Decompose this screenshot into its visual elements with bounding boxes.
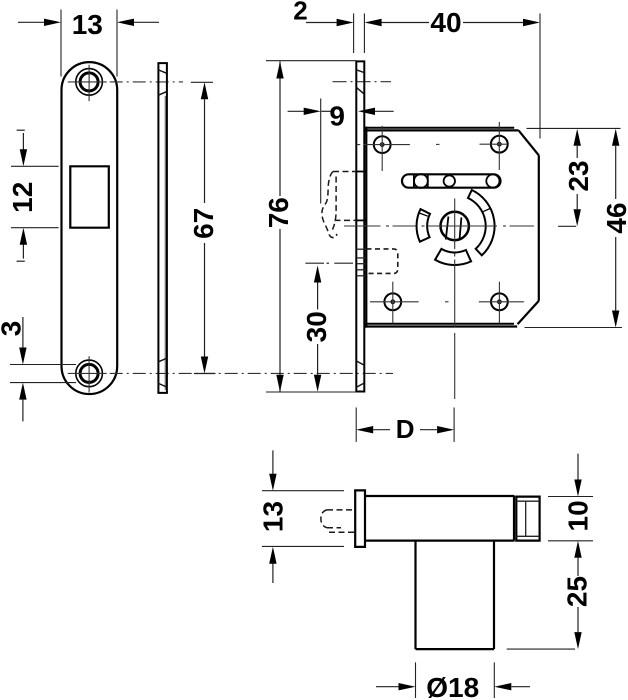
bottom-right hole crosshair xyxy=(479,282,524,324)
core vertical centerline xyxy=(454,199,456,400)
tumbler circle 2 xyxy=(444,175,455,186)
svg-text:9: 9 xyxy=(329,101,345,132)
lock faceplate strip xyxy=(356,61,364,391)
dim 13b bottom arrow xyxy=(269,547,276,583)
lock faceplate strip hatching xyxy=(356,70,364,387)
dim 13b extension lines xyxy=(262,491,344,547)
bottom view faceplate bar xyxy=(355,490,365,547)
bottom view cylinder xyxy=(416,541,495,650)
dim 18 label xyxy=(426,672,479,700)
dim 9 reference line xyxy=(320,99,322,204)
dim 18 extension lines xyxy=(416,662,495,698)
svg-text:67: 67 xyxy=(188,208,219,239)
bottom holes centerline dot xyxy=(445,301,449,303)
dim right bottom extension line xyxy=(525,327,623,329)
lock case outline xyxy=(365,127,539,328)
dim 12 bottom arrow xyxy=(17,228,28,262)
cam arc right joint line xyxy=(483,208,490,211)
dim 3 extension lines xyxy=(10,365,76,383)
dim 12 extension lines xyxy=(11,166,59,227)
dim 2 extension lines xyxy=(354,13,365,53)
dim 13 extension lines xyxy=(61,10,117,77)
dim 3 top arrow xyxy=(19,317,26,365)
tumbler circle 3 xyxy=(486,174,499,187)
dim 46 line and arrows xyxy=(612,129,619,328)
bottom screw hole outer circle xyxy=(76,360,103,387)
latch slot edge lines xyxy=(357,249,366,276)
dim right top extension line xyxy=(527,127,621,129)
dim 76 bottom extension line xyxy=(266,391,356,393)
bottom screw hole inner circle xyxy=(80,364,98,382)
bottom view hook dashed xyxy=(321,510,355,532)
dim 9 line stub xyxy=(321,110,330,112)
cam arc bottom xyxy=(435,249,471,265)
dim 46 label xyxy=(601,202,628,233)
dim 30 label xyxy=(301,311,332,342)
bottom hole centerline xyxy=(110,372,393,374)
core horizontal centerline xyxy=(344,225,534,227)
dim 23 label xyxy=(563,160,594,191)
dim 40 right arrow xyxy=(463,19,540,26)
dim 9 right arrow xyxy=(358,108,394,115)
top-right hole crosshair xyxy=(480,122,507,170)
top holes centerline dot xyxy=(436,143,440,145)
svg-text:Ø18: Ø18 xyxy=(426,672,479,700)
svg-text:3: 3 xyxy=(0,321,26,337)
svg-text:D: D xyxy=(396,414,415,444)
dim 25 label xyxy=(562,576,593,607)
dim 12 top arrow xyxy=(17,130,28,166)
dim 67 line and arrows xyxy=(201,82,208,373)
dim 76 line and arrows xyxy=(276,62,283,392)
dim 3 bottom arrow xyxy=(19,383,26,422)
faceplate side view hatching xyxy=(158,70,166,387)
svg-text:23: 23 xyxy=(563,160,594,191)
tumbler circle 1 xyxy=(414,174,428,188)
dim 13 label xyxy=(72,9,103,40)
dim 40 label xyxy=(430,7,461,38)
dim 13b top arrow xyxy=(269,450,276,490)
dim 67 end ticks xyxy=(191,82,216,373)
lock case bottom-left screw hole xyxy=(384,293,401,310)
cam arc left joint line xyxy=(419,213,428,216)
svg-text:46: 46 xyxy=(601,202,628,233)
dim 76 label xyxy=(263,197,294,228)
lock case top-left screw hole xyxy=(374,136,391,153)
dim 2 label xyxy=(293,0,307,26)
dim 13 left arrow xyxy=(18,19,61,26)
dim 13 right arrow xyxy=(117,19,159,26)
top hole centerline xyxy=(110,81,183,83)
dim 9 left arrow xyxy=(288,108,321,115)
svg-text:12: 12 xyxy=(7,182,38,213)
cylinder core circle xyxy=(441,212,469,240)
bottom screw hole crosshair xyxy=(68,356,107,392)
dim 10 bottom arrow and 25 line xyxy=(574,541,581,649)
hook dashed inner line xyxy=(331,177,336,233)
dim 12 label xyxy=(7,182,38,213)
lock case bottom-right screw hole xyxy=(491,293,508,310)
lock case top-right screw hole xyxy=(491,136,508,153)
hidden latch dashed outline xyxy=(367,249,398,274)
dim 76 top extension line xyxy=(266,60,356,62)
dim 18 right arrow xyxy=(494,683,530,690)
dim 23 tick xyxy=(558,225,576,227)
dim 9 label xyxy=(329,101,345,132)
svg-text:30: 30 xyxy=(301,311,332,342)
dim 2 arrow xyxy=(306,19,354,26)
top-left hole crosshair xyxy=(357,126,410,171)
lock strip top centerline xyxy=(333,81,392,83)
faceplate side view inner edge xyxy=(164,96,166,390)
dim 10 label xyxy=(563,500,594,531)
dim D label xyxy=(396,414,415,444)
faceplate front view outline xyxy=(62,62,118,394)
faceplate side view outline xyxy=(158,63,167,393)
svg-text:10: 10 xyxy=(563,500,594,531)
cam arc left xyxy=(417,209,430,242)
top screw hole outer circle xyxy=(76,69,103,96)
hook dashed bottom line xyxy=(335,219,357,221)
svg-text:76: 76 xyxy=(263,197,294,228)
bottom-left hole crosshair xyxy=(370,282,419,324)
hook slot edges xyxy=(356,172,366,221)
svg-text:25: 25 xyxy=(562,576,593,607)
hook dashed top line xyxy=(333,171,356,173)
faceplate latch cutout rectangle xyxy=(70,166,109,227)
svg-text:40: 40 xyxy=(430,7,461,38)
dim 10-25 extension lines xyxy=(507,497,593,650)
dim 23 line and arrows xyxy=(574,129,581,227)
bottom view lock body xyxy=(365,496,515,541)
dim 10 top arrow xyxy=(574,454,581,497)
dim D extension lines xyxy=(356,408,454,442)
dim 3 label xyxy=(0,321,26,337)
dim 40 right extension line xyxy=(539,13,541,138)
dim D line and arrows xyxy=(356,426,454,433)
top screw hole inner circle xyxy=(80,73,98,91)
tumbler slot square lines xyxy=(414,174,428,187)
hook dashed outer curve xyxy=(322,172,337,238)
svg-text:13: 13 xyxy=(257,501,288,532)
tumbler slot xyxy=(402,174,500,187)
dim 30 line and arrows xyxy=(314,266,321,392)
dim 67 label xyxy=(188,208,219,239)
bottom view cylinder button xyxy=(516,497,539,541)
cam arc right xyxy=(468,190,495,255)
svg-text:13: 13 xyxy=(72,9,103,40)
svg-text:2: 2 xyxy=(293,0,307,26)
dim 30 reference centerline xyxy=(305,262,353,264)
cylinder core keyway lines xyxy=(446,217,462,240)
dim 18 left arrow xyxy=(376,683,416,690)
dim 40 left arrow xyxy=(365,19,429,26)
top screw hole crosshair xyxy=(68,65,107,102)
dim 13b label xyxy=(257,501,288,532)
